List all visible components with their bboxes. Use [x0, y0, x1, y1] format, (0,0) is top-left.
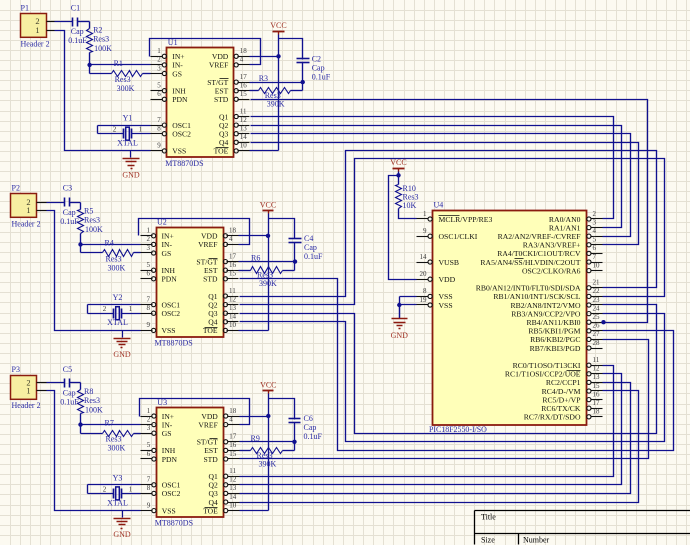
wire TOE net — [250, 150, 279, 152]
wire — [80, 414, 82, 425]
resistor R7 300K — [103, 419, 134, 453]
wire U1.Q1 to U4.RA0 — [251, 117, 614, 219]
svg-text:16: 16 — [240, 82, 248, 90]
svg-text:Res3: Res3 — [115, 75, 131, 84]
wire — [47, 211, 141, 331]
svg-text:21: 21 — [593, 279, 601, 287]
svg-text:0.1uF: 0.1uF — [312, 72, 331, 81]
wire U3.STD to U4.RB6 — [240, 340, 649, 459]
U4 pin 16 RC5/D+/VP — [542, 390, 602, 404]
crystal Y3 XTAL — [88, 473, 141, 507]
svg-text:300K: 300K — [108, 444, 126, 453]
wire — [80, 245, 82, 253]
svg-text:VCC: VCC — [260, 200, 276, 209]
svg-text:R9: R9 — [251, 434, 260, 443]
svg-text:1: 1 — [26, 386, 30, 396]
resistor R10 10K — [396, 176, 419, 211]
svg-text:8: 8 — [423, 287, 427, 295]
svg-text:3: 3 — [147, 244, 151, 252]
wire — [294, 423, 296, 442]
svg-text:100K: 100K — [85, 225, 103, 234]
svg-text:OSC2: OSC2 — [162, 489, 181, 498]
svg-text:20: 20 — [420, 270, 428, 278]
svg-text:13: 13 — [593, 373, 601, 381]
U1 pin 10 TOE — [214, 142, 250, 156]
svg-text:14: 14 — [420, 253, 428, 261]
wire — [143, 73, 151, 75]
U1 pin 17 ST/GT — [207, 73, 249, 87]
svg-text:Title: Title — [481, 513, 496, 522]
svg-text:2: 2 — [113, 126, 117, 134]
microcontroller U4 PIC18F2550-I/SO — [429, 200, 587, 433]
svg-text:Y2: Y2 — [113, 293, 123, 302]
U1 pin 13 Q3 — [219, 125, 249, 139]
U1 pin 4 VREF — [209, 56, 250, 70]
svg-text:15: 15 — [593, 382, 601, 390]
svg-text:OSC2/CLKO/RA6: OSC2/CLKO/RA6 — [522, 266, 581, 275]
U4 pin 8 VSS — [417, 287, 453, 301]
U2 pin 11 Q1 — [208, 287, 238, 301]
svg-text:U3: U3 — [157, 398, 167, 407]
DTMF decoder U3 MT8870DS — [155, 398, 224, 528]
svg-text:0.1uF: 0.1uF — [60, 217, 79, 226]
wire U2.STD to U4.RB5 — [240, 279, 674, 451]
svg-text:VSS: VSS — [162, 326, 176, 335]
resistor R3 390K — [259, 74, 291, 109]
wire — [294, 262, 296, 271]
svg-text:Cap: Cap — [63, 208, 76, 217]
svg-text:1: 1 — [147, 227, 151, 235]
U2 pin 5 INH — [141, 261, 176, 275]
svg-text:R7: R7 — [105, 419, 114, 428]
svg-text:U2: U2 — [157, 218, 167, 227]
wire — [89, 65, 91, 74]
U1 pin 15 STD — [214, 90, 250, 104]
svg-text:300K: 300K — [108, 264, 126, 273]
svg-text:3: 3 — [593, 218, 597, 226]
wire VCC column — [268, 214, 270, 331]
U2 pin 16 EST — [204, 261, 239, 275]
ground — [122, 151, 140, 180]
svg-text:TOE: TOE — [214, 147, 229, 156]
U3 pin 16 EST — [204, 441, 239, 455]
svg-text:1: 1 — [139, 126, 143, 134]
svg-text:C5: C5 — [63, 365, 72, 374]
U2 pin 17 ST/GT — [196, 252, 238, 266]
wire U1.STD to U4.RB4 — [251, 100, 648, 323]
svg-text:1: 1 — [147, 407, 151, 415]
U4 pin 25 RB4/AN11/KBI0 — [527, 313, 603, 327]
svg-text:P1: P1 — [21, 3, 29, 12]
svg-text:1: 1 — [35, 25, 39, 35]
svg-text:Cap: Cap — [63, 388, 76, 397]
svg-text:13: 13 — [229, 484, 237, 492]
svg-text:STD: STD — [203, 455, 218, 464]
U2 pin 3 GS — [141, 244, 172, 258]
wire IN- net — [90, 64, 151, 66]
resistor R4 300K — [103, 238, 134, 272]
svg-text:100K: 100K — [94, 44, 112, 53]
svg-text:27: 27 — [593, 330, 601, 338]
ground — [391, 305, 409, 340]
svg-text:2: 2 — [157, 56, 161, 64]
svg-text:R4: R4 — [105, 238, 114, 247]
U4 pin 11 RC0/T1OSO/T13CKI — [513, 356, 603, 370]
svg-text:R1: R1 — [114, 59, 123, 68]
svg-text:8: 8 — [157, 125, 161, 133]
svg-text:MCLR/VPP/RE3: MCLR/VPP/RE3 — [439, 215, 493, 224]
connector P1 header — [21, 3, 55, 48]
U4 pin 26 RB5/KBI1/PGM — [528, 322, 602, 336]
svg-text:11: 11 — [229, 287, 236, 295]
wire — [294, 243, 296, 262]
svg-text:12: 12 — [240, 116, 248, 124]
svg-text:7: 7 — [157, 116, 161, 124]
svg-text:Cap: Cap — [304, 243, 317, 252]
junction — [301, 80, 305, 84]
wire ST/GT net — [250, 82, 303, 84]
svg-text:Res3: Res3 — [84, 215, 100, 224]
U4 pin 19 VSS — [417, 296, 453, 310]
svg-text:P3: P3 — [12, 365, 20, 374]
svg-text:17: 17 — [229, 252, 237, 260]
U1 pin 6 PDN — [151, 90, 189, 104]
U2 pin 7 OSC1 — [141, 295, 181, 309]
wire — [240, 450, 251, 452]
U4 pin 1 MCLR/VPP/RE3 — [417, 210, 493, 224]
svg-text:C3: C3 — [63, 184, 72, 193]
svg-text:Y1: Y1 — [123, 114, 133, 123]
svg-text:3: 3 — [157, 64, 161, 72]
svg-text:C1: C1 — [71, 3, 80, 12]
wire IN+/VREF loop — [150, 39, 261, 65]
svg-text:10: 10 — [593, 261, 601, 269]
svg-text:4: 4 — [229, 235, 233, 243]
svg-text:Header 2: Header 2 — [12, 401, 41, 410]
junction — [266, 234, 270, 238]
junction — [397, 303, 401, 307]
U3 pin 14 Q4 — [209, 493, 240, 507]
svg-text:OSC1/CLKI: OSC1/CLKI — [439, 232, 478, 241]
svg-text:STD: STD — [203, 275, 218, 284]
svg-text:6: 6 — [147, 270, 151, 278]
svg-text:18: 18 — [229, 227, 237, 235]
wire — [269, 399, 295, 420]
U3 pin 8 OSC2 — [141, 484, 181, 498]
svg-text:11: 11 — [593, 356, 600, 364]
U2 pin 15 STD — [203, 270, 238, 284]
U2 pin 13 Q3 — [208, 304, 238, 318]
wire — [302, 83, 304, 91]
svg-text:0.1uF: 0.1uF — [304, 432, 323, 441]
U3 pin 2 IN- — [141, 415, 173, 429]
U1 pin 14 Q4 — [219, 133, 249, 147]
wire TOE net — [240, 510, 269, 512]
wire VSS net — [400, 296, 417, 298]
U2 pin 8 OSC2 — [141, 304, 181, 318]
U4 pin 15 RC4/D-/VM — [542, 382, 603, 396]
U1 pin 5 INH — [151, 82, 187, 96]
svg-text:14: 14 — [240, 133, 248, 141]
svg-text:16: 16 — [229, 441, 237, 449]
junction — [266, 414, 270, 418]
U2 pin 10 TOE — [203, 321, 239, 335]
svg-text:18: 18 — [229, 407, 237, 415]
svg-text:MT8870DS: MT8870DS — [155, 338, 193, 347]
wire IN+/VREF loop — [140, 399, 250, 425]
U1 pin 16 EST — [215, 82, 250, 96]
U4 pin 9 OSC1/CLKI — [417, 227, 478, 241]
svg-text:26: 26 — [593, 322, 601, 330]
DTMF decoder U1 MT8870DS — [165, 38, 233, 168]
U2 pin 18 VDD — [201, 227, 238, 241]
U4 pin 20 VDD — [417, 270, 456, 284]
svg-text:Cap: Cap — [312, 63, 325, 72]
svg-text:VCC: VCC — [390, 158, 406, 167]
svg-text:17: 17 — [229, 433, 237, 441]
junction — [292, 440, 296, 444]
U1 pin 1 IN+ — [151, 47, 185, 61]
junction — [276, 54, 280, 58]
U4 pin 22 RB1/AN10/INT1/SCK/SCL — [493, 287, 602, 301]
svg-text:Cap: Cap — [71, 27, 84, 36]
svg-text:Size: Size — [481, 536, 495, 545]
wire — [250, 90, 259, 92]
U4 pin 23 RB2/AN8/INT2/VMO — [510, 296, 602, 310]
junction — [78, 422, 82, 426]
wire VDD net — [250, 56, 279, 58]
wire IN+/VREF loop — [139, 219, 250, 245]
wire U2.Q4 to U4.RB3 — [240, 314, 665, 442]
svg-text:9: 9 — [157, 142, 161, 150]
svg-text:12: 12 — [229, 295, 237, 303]
wire VDD branch — [389, 176, 417, 280]
wire — [47, 391, 141, 511]
U4 pin 17 RC6/TX/CK — [541, 399, 602, 413]
svg-text:MT8870DS: MT8870DS — [165, 159, 203, 168]
svg-text:23: 23 — [593, 296, 601, 304]
svg-text:1: 1 — [423, 210, 427, 218]
svg-text:VREF: VREF — [198, 420, 217, 429]
svg-text:7: 7 — [147, 295, 151, 303]
svg-text:P2: P2 — [12, 184, 20, 193]
U3 pin 18 VDD — [201, 407, 239, 421]
svg-text:VDD: VDD — [439, 275, 456, 284]
U2 pin 9 VSS — [141, 321, 176, 335]
wire — [47, 382, 65, 384]
connector P3 header — [11, 365, 47, 410]
U4 pin 13 RC2/CCP1 — [546, 373, 603, 387]
wire U3.Q2 to U4.RC1 — [240, 374, 622, 485]
svg-text:Res3: Res3 — [106, 255, 122, 264]
U4 pin 2 RA0/AN0 — [549, 210, 603, 224]
svg-text:U4: U4 — [434, 200, 444, 209]
junction — [87, 63, 91, 67]
svg-text:17: 17 — [240, 73, 248, 81]
svg-text:15: 15 — [229, 450, 237, 458]
svg-text:390K: 390K — [259, 279, 277, 288]
U4 pin 27 RB6/KBI2/PGC — [530, 330, 602, 344]
MCLR overbar — [439, 215, 460, 217]
wire VDD net — [240, 416, 269, 418]
U3 pin 6 PDN — [141, 450, 178, 464]
U3 pin 11 Q1 — [209, 467, 240, 481]
wire — [239, 270, 251, 272]
svg-text:Y3: Y3 — [113, 473, 123, 482]
svg-text:19: 19 — [420, 296, 428, 304]
wire VCC column — [268, 394, 270, 511]
capacitor C2 0.1uF — [297, 54, 331, 81]
svg-text:R5: R5 — [84, 206, 93, 215]
svg-text:10: 10 — [229, 501, 237, 509]
crystal Y1 XTAL — [98, 114, 151, 148]
svg-text:10: 10 — [240, 142, 248, 150]
svg-text:GS: GS — [162, 249, 172, 258]
svg-text:14: 14 — [229, 493, 237, 501]
svg-text:14: 14 — [229, 313, 237, 321]
U1 pin 9 VSS — [151, 142, 187, 156]
wire — [78, 21, 90, 23]
U2 pin 4 VREF — [198, 235, 238, 249]
junction — [396, 173, 400, 177]
svg-text:3: 3 — [147, 424, 151, 432]
wire U1.Q4 to U4.RA3 — [251, 143, 639, 245]
U4 pin 18 RC7/RX/DT/SDO — [524, 408, 603, 422]
U2 pin 14 Q4 — [208, 313, 238, 327]
wire — [70, 382, 81, 384]
svg-text:11: 11 — [240, 107, 247, 115]
svg-text:C2: C2 — [312, 54, 321, 63]
U4 pin 21 RB0/AN12/INT0/FLT0/SDI/SDA — [476, 279, 603, 293]
U3 pin 10 TOE — [203, 501, 239, 515]
svg-text:11: 11 — [229, 467, 236, 475]
U1 pin 12 Q2 — [219, 116, 249, 130]
U1 pin 3 GS — [151, 64, 183, 78]
svg-text:6: 6 — [147, 450, 151, 458]
resistor R2 100K — [87, 26, 113, 54]
svg-text:U1: U1 — [168, 38, 178, 47]
U3 pin 15 STD — [203, 450, 239, 464]
svg-text:Number: Number — [523, 536, 550, 545]
wire — [134, 433, 141, 435]
svg-text:RB7/KBI3/PGD: RB7/KBI3/PGD — [530, 344, 581, 353]
svg-text:1: 1 — [26, 205, 30, 215]
svg-text:2: 2 — [593, 210, 597, 218]
U3 pin 13 Q3 — [209, 484, 240, 498]
junction — [293, 259, 297, 263]
svg-text:2: 2 — [103, 485, 107, 493]
wire IN- net — [81, 244, 141, 246]
U4 pin 7 RA5/AN4/SS/HLVDIN/C2OUT — [480, 253, 602, 267]
wire U2.Q1 to U4.RB0 — [240, 151, 657, 297]
svg-text:9: 9 — [147, 501, 151, 509]
power VCC — [390, 158, 406, 171]
svg-text:VUSB: VUSB — [439, 258, 460, 267]
svg-text:0.1uF: 0.1uF — [60, 397, 79, 406]
svg-text:5: 5 — [593, 236, 597, 244]
svg-text:PIC18F2550-I/SO: PIC18F2550-I/SO — [429, 425, 487, 434]
ground — [113, 331, 131, 360]
svg-text:17: 17 — [593, 399, 601, 407]
U4 pin 28 RB7/KBI3/PGD — [530, 339, 603, 353]
svg-text:R6: R6 — [251, 254, 260, 263]
U4 pin 12 RC1/T1OSI/CCP2/UOE — [505, 365, 603, 379]
U4 pin 5 RA3/AN3/VREF+ — [523, 236, 603, 250]
svg-text:4: 4 — [240, 56, 244, 64]
svg-text:VREF: VREF — [198, 240, 217, 249]
wire — [269, 219, 295, 239]
U3 pin 3 GS — [141, 424, 172, 438]
connector P2 header — [11, 184, 47, 229]
svg-text:VSS: VSS — [162, 506, 176, 515]
svg-text:PDN: PDN — [162, 275, 178, 284]
U2 pin 12 Q2 — [208, 295, 238, 309]
wire U1.Q3 to U4.RA2 — [251, 134, 631, 237]
wire VDD net — [239, 235, 269, 237]
svg-text:9: 9 — [423, 227, 427, 235]
svg-text:6: 6 — [593, 244, 597, 252]
crystal Y2 XTAL — [88, 293, 141, 327]
title block — [475, 511, 690, 545]
svg-text:2: 2 — [147, 235, 151, 243]
wire TOE net — [239, 330, 269, 332]
wire — [55, 21, 73, 23]
svg-text:R8: R8 — [84, 387, 93, 396]
resistor R5 100K — [78, 206, 104, 234]
junction — [78, 242, 82, 246]
svg-text:12: 12 — [593, 365, 601, 373]
svg-text:8: 8 — [147, 304, 151, 312]
capacitor C4 0.1uF — [289, 234, 324, 261]
wire VCC column — [278, 35, 280, 151]
resistor R8 100K — [78, 387, 104, 415]
svg-text:Cap: Cap — [304, 423, 317, 432]
U2 pin 6 PDN — [141, 270, 178, 284]
svg-text:2: 2 — [147, 415, 151, 423]
capacitor C5 0.1uF — [60, 365, 79, 406]
svg-text:1: 1 — [157, 47, 161, 55]
svg-text:5: 5 — [157, 82, 161, 90]
svg-text:2: 2 — [103, 305, 107, 313]
svg-text:MT8870DS: MT8870DS — [155, 519, 193, 528]
wire ST/GT net — [239, 261, 295, 263]
power VCC — [260, 200, 276, 213]
U4 pin 6 RA4/T0CKI/C1OUT/RCV — [497, 244, 602, 258]
svg-text:VSS: VSS — [172, 147, 186, 156]
svg-text:R3: R3 — [259, 74, 268, 83]
svg-text:5: 5 — [147, 441, 151, 449]
U4 pin 24 RB3/AN9/CCP2/VPO — [511, 304, 602, 318]
svg-text:Res3: Res3 — [106, 435, 122, 444]
U3 pin 9 VSS — [141, 501, 176, 515]
svg-text:VCC: VCC — [270, 21, 286, 30]
wire IN- net — [81, 424, 141, 426]
svg-text:GS: GS — [162, 429, 172, 438]
svg-text:Header 2: Header 2 — [21, 39, 50, 48]
wire — [302, 63, 304, 83]
ground — [113, 511, 131, 540]
svg-text:7: 7 — [147, 476, 151, 484]
svg-text:6: 6 — [157, 90, 161, 98]
wire — [80, 425, 82, 434]
svg-text:15: 15 — [240, 90, 248, 98]
svg-text:Res3: Res3 — [93, 35, 109, 44]
U1 pin 11 Q1 — [219, 107, 249, 121]
svg-text:C6: C6 — [304, 414, 313, 423]
U3 pin 17 ST/GT — [197, 433, 240, 447]
U4 pin 4 RA2/AN2/VREF-/CVREF — [498, 227, 603, 241]
wire — [70, 202, 81, 204]
